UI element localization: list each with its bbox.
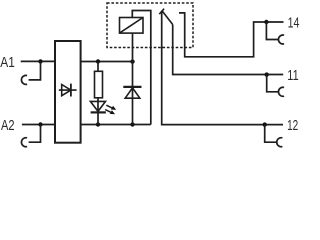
wire resistor top — [97, 62, 99, 72]
contact NC line to 12 — [162, 11, 283, 125]
diode V1 wire — [59, 89, 77, 91]
clamp contact arc 14 — [278, 35, 284, 44]
wire top rail — [81, 61, 133, 63]
LED V2 triangle — [90, 101, 105, 111]
relay coil K1 — [120, 18, 144, 34]
node top rail coil junction — [130, 59, 134, 63]
diode V1 triangle — [62, 85, 71, 96]
wire A1 to input block — [21, 60, 55, 62]
freewheel diode V3 cathode bar — [123, 86, 141, 88]
relay enclosure dashed box — [107, 3, 193, 48]
wire coil top to bottom rail — [132, 11, 151, 125]
wire 11 clamp drop — [267, 75, 279, 92]
wire 12 clamp drop — [265, 125, 277, 143]
node 14 dot — [264, 20, 268, 24]
resistor R1 — [95, 71, 103, 98]
node A2 junction dot — [38, 122, 42, 126]
wire 14 clamp drop — [266, 22, 278, 40]
clamp contact arc A1 — [21, 75, 27, 84]
relay coil diagonal — [120, 18, 144, 34]
LED arrow 2 — [105, 110, 115, 115]
svg-text:11: 11 — [287, 67, 298, 84]
wire A2 clamp drop — [29, 125, 41, 143]
clamp contact arc 12 — [277, 138, 283, 147]
wire bottom rail — [81, 124, 151, 126]
LED arrow 1 — [106, 105, 116, 110]
node top rail resistor junction — [96, 59, 100, 63]
LED V2 cathode bar — [91, 111, 106, 113]
wire A1 clamp drop — [29, 61, 41, 80]
clamp contact arc 11 — [278, 87, 284, 96]
svg-text:A1: A1 — [0, 54, 15, 71]
input block rectangle — [55, 41, 81, 143]
contact common line to 11 — [173, 25, 284, 75]
wire A2 to input block — [22, 124, 55, 126]
svg-text:12: 12 — [287, 117, 298, 134]
node bottom rail LED junction — [96, 122, 100, 126]
node 12 dot — [263, 122, 267, 126]
wire resistor to LED — [97, 98, 99, 125]
node bottom rail diode junction — [130, 122, 134, 126]
svg-text:14: 14 — [288, 15, 300, 32]
wire freewheel diode branch — [132, 33, 134, 124]
svg-text:A2: A2 — [1, 117, 15, 134]
contact tick — [159, 9, 164, 14]
contact blade — [162, 11, 173, 25]
clamp contact arc A2 — [21, 138, 27, 147]
node 11 dot — [265, 72, 269, 76]
node A1 junction dot — [38, 59, 42, 63]
diode V1 cathode bar — [70, 84, 72, 97]
freewheel diode V3 triangle — [125, 88, 140, 98]
contact NO line to 14 — [179, 13, 284, 57]
